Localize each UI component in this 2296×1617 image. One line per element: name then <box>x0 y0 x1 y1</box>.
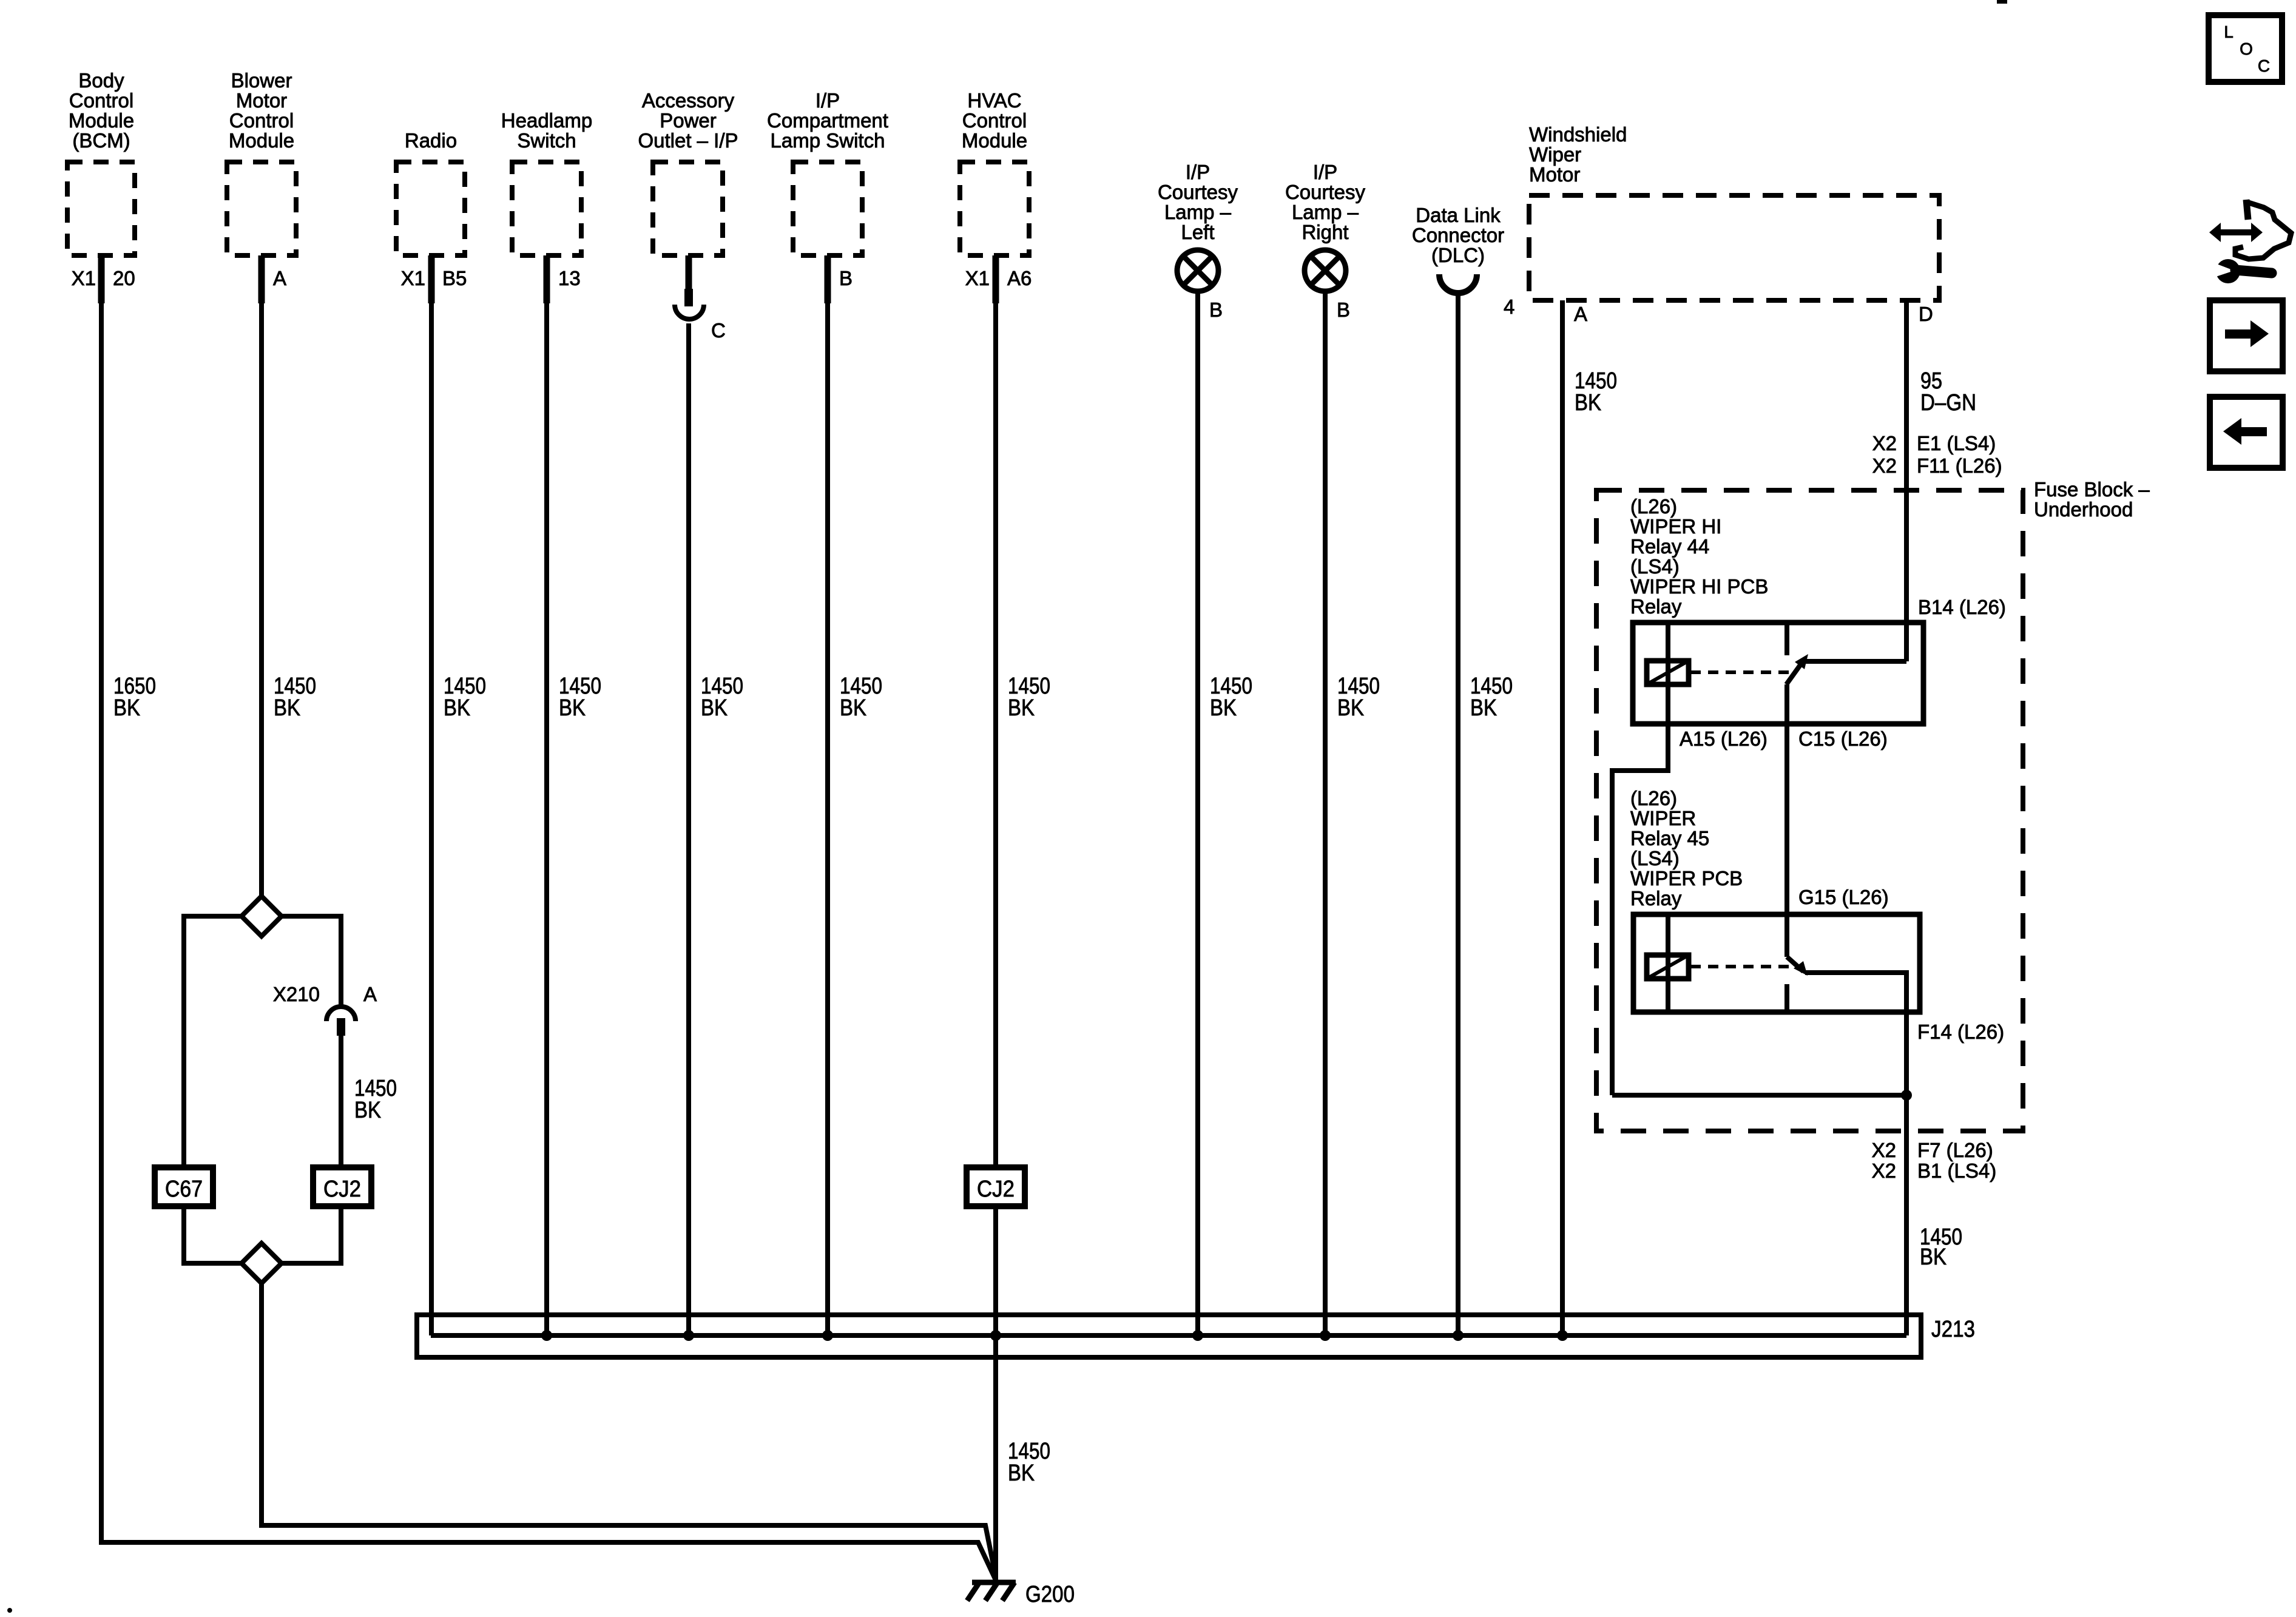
svg-text:Control: Control <box>69 89 133 112</box>
svg-text:Left: Left <box>1181 221 1214 243</box>
svg-text:BK: BK <box>1008 695 1035 721</box>
svg-text:BK: BK <box>274 695 300 721</box>
svg-text:Headlamp: Headlamp <box>501 109 592 132</box>
svg-text:Module: Module <box>229 129 294 152</box>
svg-text:C: C <box>711 319 726 342</box>
svg-text:BK: BK <box>559 695 586 721</box>
svg-text:Motor: Motor <box>1529 163 1580 186</box>
svg-text:WIPER: WIPER <box>1630 807 1696 829</box>
svg-text:F7 (L26): F7 (L26) <box>1917 1139 1993 1161</box>
svg-text:(BCM): (BCM) <box>72 129 130 152</box>
svg-text:X2: X2 <box>1872 432 1897 454</box>
svg-text:G15 (L26): G15 (L26) <box>1798 886 1889 908</box>
svg-text:L: L <box>2224 22 2234 41</box>
svg-text:B1 (LS4): B1 (LS4) <box>1917 1160 1996 1182</box>
svg-text:BK: BK <box>1575 390 1601 416</box>
svg-text:Courtesy: Courtesy <box>1285 181 1366 203</box>
svg-text:F14 (L26): F14 (L26) <box>1917 1021 2004 1043</box>
svg-text:Underhood: Underhood <box>2034 498 2133 521</box>
svg-text:C15 (L26): C15 (L26) <box>1798 727 1888 750</box>
svg-text:(LS4): (LS4) <box>1630 847 1680 869</box>
svg-text:B14 (L26): B14 (L26) <box>1918 596 2006 618</box>
svg-text:G200: G200 <box>1025 1582 1075 1607</box>
svg-text:Control: Control <box>962 109 1027 132</box>
svg-text:13: 13 <box>558 267 581 289</box>
svg-text:BK: BK <box>113 695 140 721</box>
svg-text:X2: X2 <box>1872 1139 1896 1161</box>
svg-text:Power: Power <box>660 109 717 132</box>
svg-text:A15 (L26): A15 (L26) <box>1680 727 1768 750</box>
svg-text:I/P: I/P <box>815 89 840 112</box>
svg-text:WIPER HI PCB: WIPER HI PCB <box>1630 575 1768 598</box>
svg-text:Outlet – I/P: Outlet – I/P <box>638 129 738 152</box>
svg-text:WIPER PCB: WIPER PCB <box>1630 867 1743 890</box>
svg-text:Wiper: Wiper <box>1529 143 1581 166</box>
svg-text:Relay 45: Relay 45 <box>1630 827 1709 849</box>
svg-text:Accessory: Accessory <box>642 89 735 112</box>
svg-text:A: A <box>273 267 286 289</box>
svg-text:BK: BK <box>701 695 728 721</box>
svg-text:HVAC: HVAC <box>967 89 1021 112</box>
svg-text:Lamp Switch: Lamp Switch <box>771 129 885 152</box>
svg-text:B: B <box>1337 299 1350 321</box>
svg-text:Module: Module <box>962 129 1027 152</box>
svg-text:Body: Body <box>78 69 124 92</box>
svg-text:4: 4 <box>1504 295 1514 318</box>
svg-text:Windshield: Windshield <box>1529 123 1627 146</box>
svg-text:O: O <box>2240 39 2253 58</box>
svg-text:B5: B5 <box>442 267 467 289</box>
svg-text:Relay: Relay <box>1630 887 1682 910</box>
svg-text:C: C <box>2258 56 2270 75</box>
svg-text:BK: BK <box>1470 695 1497 721</box>
svg-text:20: 20 <box>113 267 135 289</box>
svg-text:Relay: Relay <box>1630 595 1682 618</box>
svg-text:Courtesy: Courtesy <box>1158 181 1238 203</box>
svg-text:Compartment: Compartment <box>767 109 888 132</box>
svg-text:WIPER HI: WIPER HI <box>1630 515 1721 538</box>
svg-text:X1: X1 <box>401 267 425 289</box>
svg-text:Lamp –: Lamp – <box>1164 201 1232 223</box>
svg-text:Data Link: Data Link <box>1416 204 1501 226</box>
svg-text:Radio: Radio <box>405 129 457 152</box>
svg-text:Lamp –: Lamp – <box>1292 201 1359 223</box>
svg-text:X210: X210 <box>273 983 320 1005</box>
svg-text:F11 (L26): F11 (L26) <box>1917 454 2002 477</box>
svg-text:X1: X1 <box>965 267 990 289</box>
svg-text:BK: BK <box>840 695 866 721</box>
svg-text:BK: BK <box>444 695 470 721</box>
svg-text:A: A <box>363 983 377 1005</box>
svg-text:BK: BK <box>1210 695 1237 721</box>
svg-text:B: B <box>1209 299 1223 321</box>
svg-text:(L26): (L26) <box>1630 495 1677 518</box>
svg-text:Module: Module <box>69 109 134 132</box>
svg-text:(DLC): (DLC) <box>1431 244 1485 266</box>
svg-text:CJ2: CJ2 <box>323 1176 361 1202</box>
svg-text:X2: X2 <box>1872 454 1897 477</box>
svg-text:A: A <box>1574 303 1587 325</box>
svg-text:(L26): (L26) <box>1630 787 1677 809</box>
svg-text:X1: X1 <box>72 267 96 289</box>
svg-text:BK: BK <box>1337 695 1364 721</box>
svg-text:Connector: Connector <box>1412 224 1504 246</box>
svg-text:Fuse Block –: Fuse Block – <box>2034 478 2150 501</box>
svg-text:I/P: I/P <box>1313 161 1337 183</box>
svg-text:CJ2: CJ2 <box>977 1176 1015 1202</box>
svg-text:BK: BK <box>1008 1460 1035 1486</box>
svg-text:J213: J213 <box>1931 1317 1975 1342</box>
svg-text:X2: X2 <box>1872 1160 1896 1182</box>
svg-text:Blower: Blower <box>231 69 292 92</box>
svg-text:Control: Control <box>229 109 294 132</box>
svg-text:C67: C67 <box>165 1176 203 1202</box>
svg-text:I/P: I/P <box>1186 161 1210 183</box>
svg-text:Relay 44: Relay 44 <box>1630 535 1709 558</box>
svg-text:D–GN: D–GN <box>1920 390 1976 416</box>
svg-text:BK: BK <box>354 1098 381 1123</box>
svg-text:D: D <box>1919 303 1933 325</box>
svg-text:(LS4): (LS4) <box>1630 555 1680 578</box>
svg-text:E1 (LS4): E1 (LS4) <box>1917 432 1996 454</box>
svg-text:Switch: Switch <box>517 129 576 152</box>
svg-text:Motor: Motor <box>236 89 287 112</box>
svg-text:B: B <box>839 267 853 289</box>
svg-text:Right: Right <box>1302 221 1348 243</box>
svg-text:BK: BK <box>1920 1244 1947 1270</box>
svg-text:A6: A6 <box>1007 267 1032 289</box>
